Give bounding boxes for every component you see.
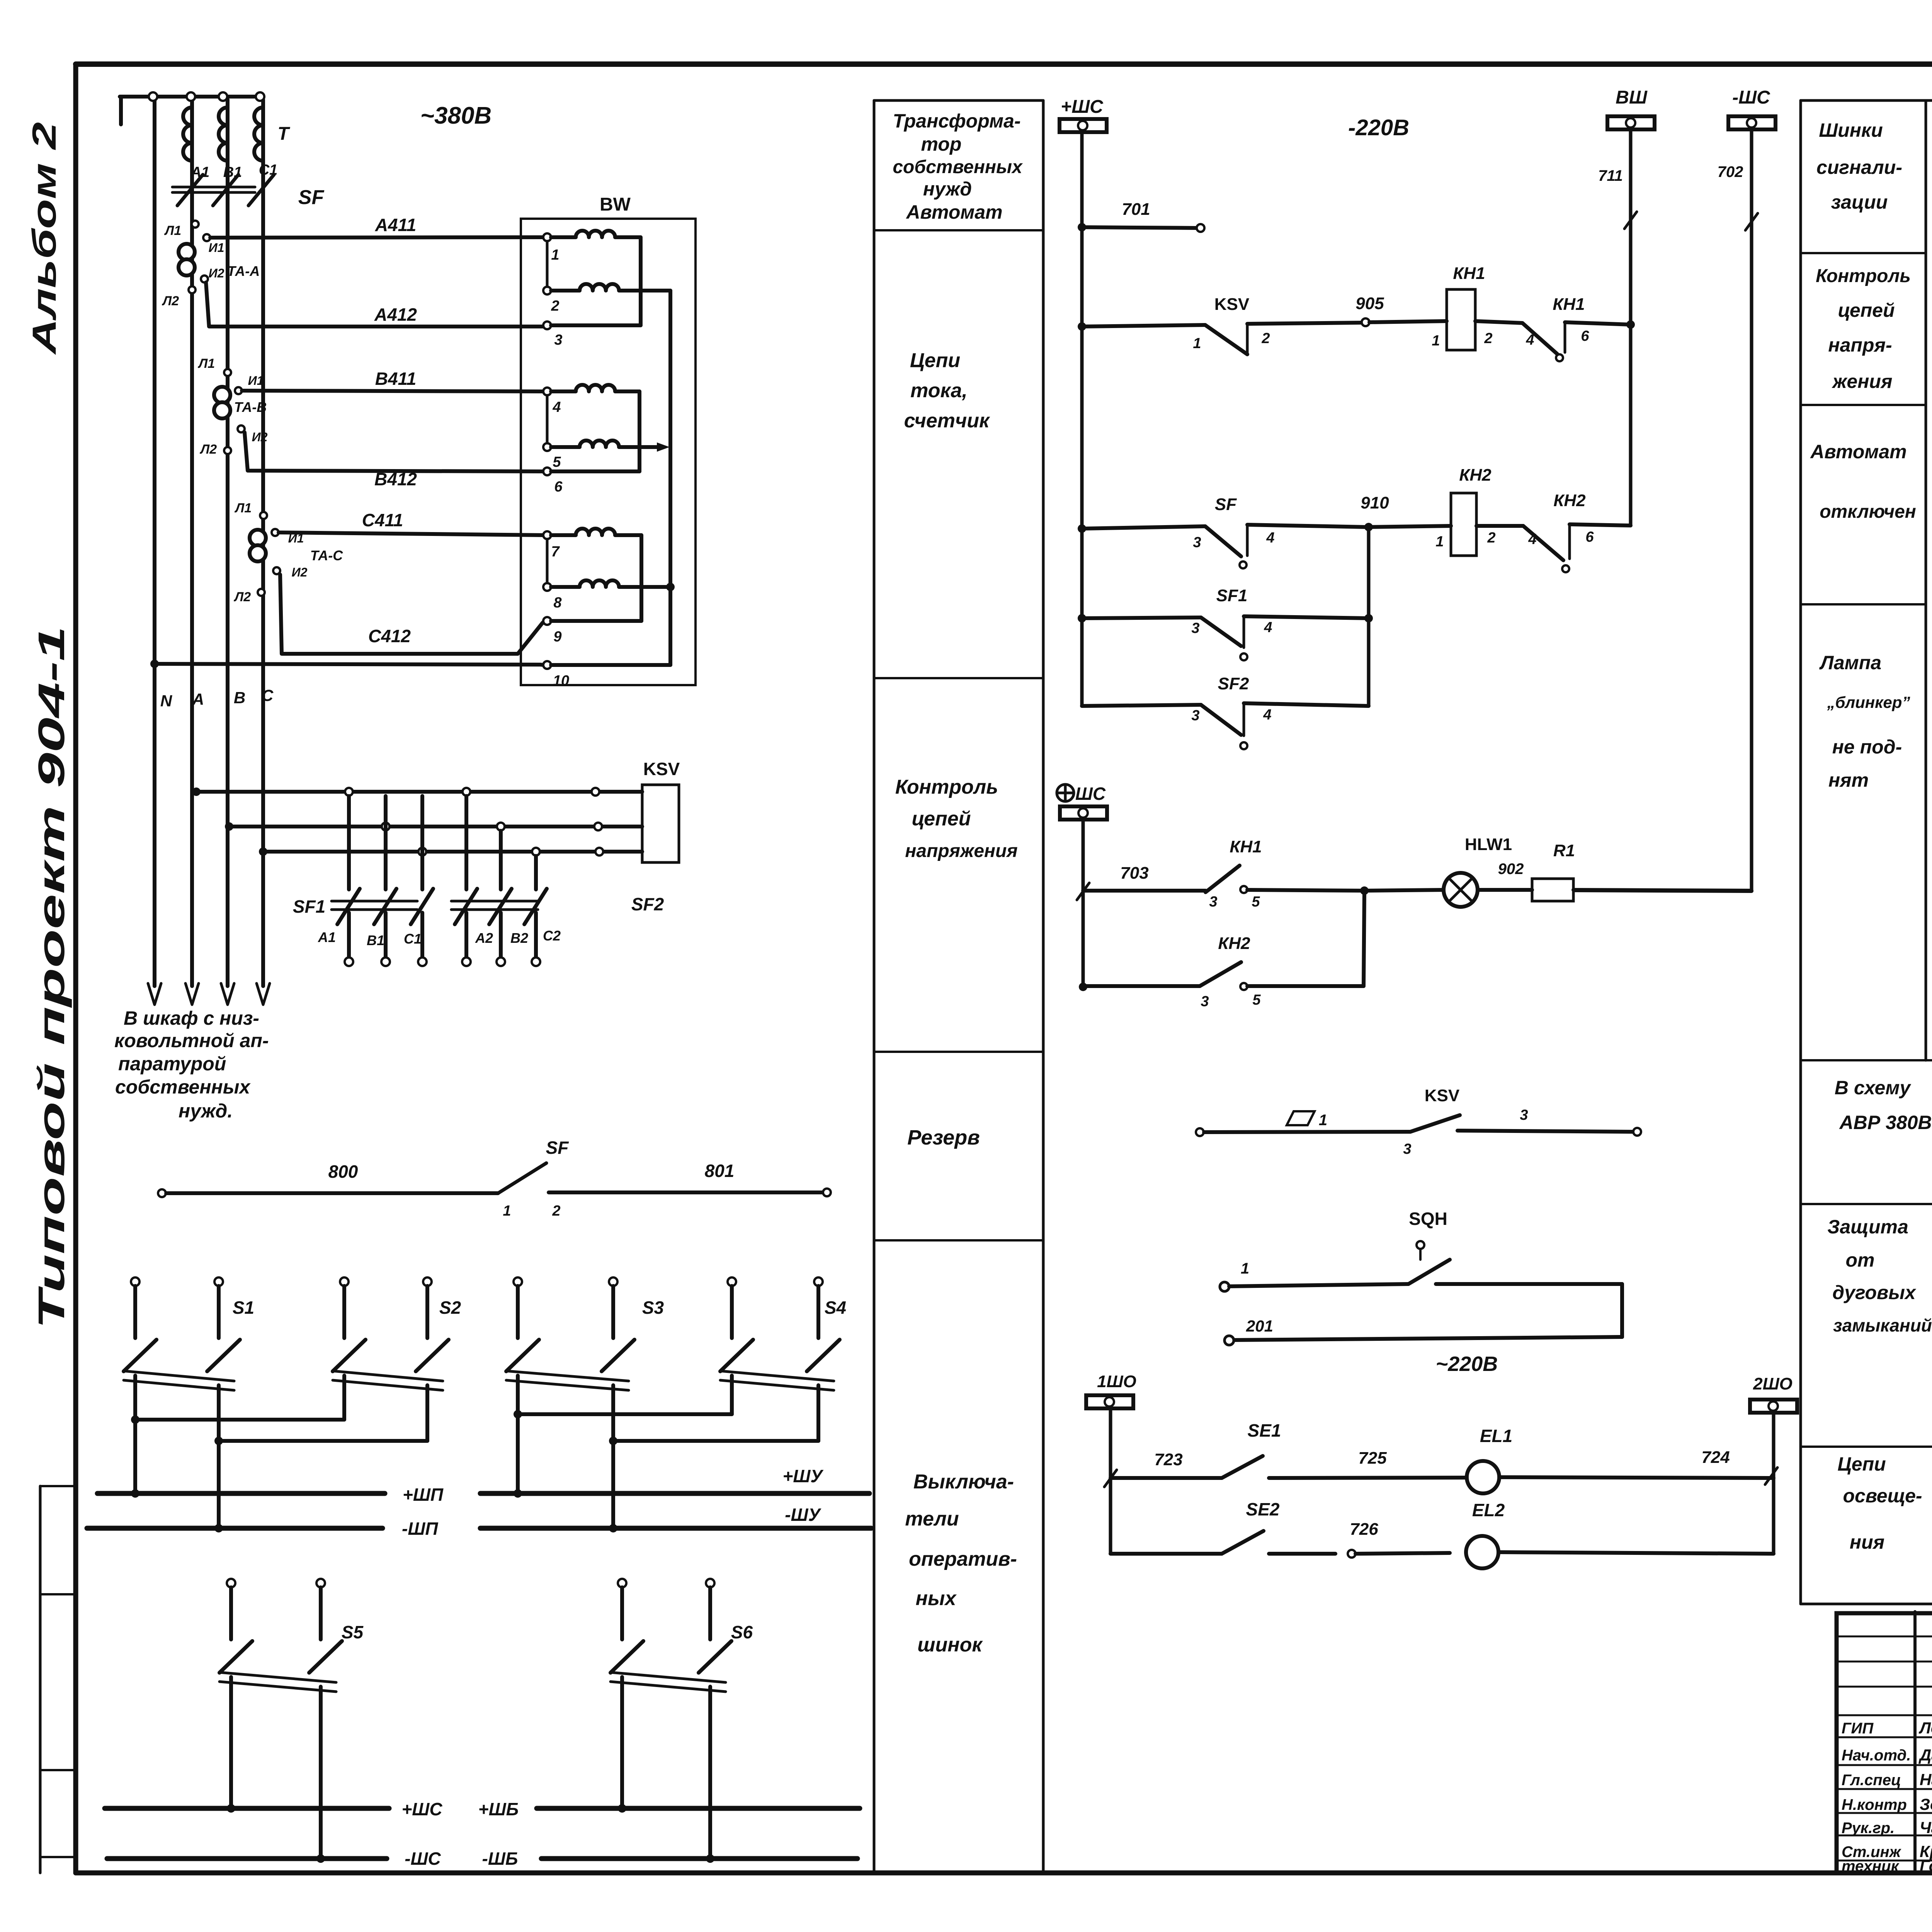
wire B411 <box>242 391 543 391</box>
svg-text:А2: А2 <box>475 930 493 946</box>
svg-text:нужд.: нужд. <box>179 1100 233 1122</box>
svg-text:9: 9 <box>553 629 561 645</box>
svg-text:Цепи: Цепи <box>1837 1453 1886 1475</box>
svg-text:8: 8 <box>553 595 562 611</box>
switch S4 <box>728 1277 736 1286</box>
contact SF1 row <box>1078 614 1086 622</box>
svg-text:нужд: нужд <box>923 178 972 200</box>
svg-text:Рук.гр.: Рук.гр. <box>1842 1820 1895 1837</box>
svg-text:EL2: EL2 <box>1472 1500 1505 1520</box>
svg-text:С1: С1 <box>404 931 422 947</box>
svg-text:КН1: КН1 <box>1553 295 1585 314</box>
svg-text:1: 1 <box>1435 534 1444 550</box>
switch S1 <box>131 1277 139 1286</box>
svg-text:паратурой: паратурой <box>118 1053 226 1075</box>
bus -ШС <box>107 1856 387 1861</box>
svg-text:1: 1 <box>503 1203 511 1219</box>
svg-text:724: 724 <box>1701 1448 1730 1467</box>
svg-text:3: 3 <box>1403 1141 1411 1157</box>
svg-text:S4: S4 <box>825 1298 846 1318</box>
bus -ШУ <box>480 1526 871 1531</box>
svg-text:6: 6 <box>554 479 563 495</box>
svg-text:EL1: EL1 <box>1480 1426 1512 1446</box>
svg-text:-ШП: -ШП <box>402 1519 438 1539</box>
bus +ШУ <box>480 1491 869 1496</box>
svg-text:цепей: цепей <box>1838 299 1895 321</box>
svg-text:Л1: Л1 <box>234 501 252 515</box>
contact KH1 row 703 <box>1077 883 1089 900</box>
svg-text:-ШУ: -ШУ <box>785 1505 821 1525</box>
contact KSV reserve row <box>1196 1128 1204 1136</box>
contact KH2 row <box>1079 983 1087 991</box>
contact SE2 row <box>1111 1552 1222 1556</box>
contact KH1 <box>1522 323 1557 354</box>
svg-text:КН2: КН2 <box>1459 466 1492 485</box>
breaker SF1 (3-pole) <box>347 796 351 889</box>
svg-text:SF1: SF1 <box>1216 586 1248 605</box>
svg-text:4: 4 <box>1264 619 1272 636</box>
svg-text:напря-: напря- <box>1828 334 1892 356</box>
BW common return wire <box>668 291 672 665</box>
svg-text:1ШО: 1ШО <box>1097 1372 1136 1391</box>
svg-text:тор: тор <box>921 133 962 155</box>
svg-text:Л1: Л1 <box>197 356 215 371</box>
svg-text:замыканий: замыканий <box>1833 1315 1932 1335</box>
svg-text:В1: В1 <box>367 932 384 948</box>
svg-text:Лампа: Лампа <box>1819 652 1881 673</box>
svg-text:910: 910 <box>1361 493 1389 512</box>
svg-text:дуговых: дуговых <box>1832 1282 1917 1303</box>
svg-text:S1: S1 <box>233 1298 254 1318</box>
svg-text:S5: S5 <box>342 1622 364 1642</box>
svg-text:ных: ных <box>916 1587 957 1610</box>
svg-text:Альбом 2: Альбом 2 <box>26 122 63 355</box>
svg-text:+ШБ: +ШБ <box>478 1799 519 1819</box>
svg-text:КН2: КН2 <box>1218 934 1250 953</box>
svg-text:1: 1 <box>1241 1260 1249 1277</box>
svg-text:жения: жения <box>1832 371 1893 392</box>
wire A412 <box>206 282 543 327</box>
svg-text:С2: С2 <box>543 928 561 944</box>
wire -ШС dropper <box>1750 130 1753 891</box>
right label column box <box>1799 100 1802 1604</box>
lamp EL1 <box>1467 1461 1499 1493</box>
svg-text:726: 726 <box>1350 1520 1378 1539</box>
wire C411 <box>279 532 545 535</box>
svg-text:АВР 380В: АВР 380В <box>1839 1112 1932 1133</box>
svg-text:-ШС: -ШС <box>1732 87 1770 108</box>
svg-text:ГИП: ГИП <box>1842 1720 1874 1737</box>
svg-text:201: 201 <box>1246 1317 1273 1335</box>
svg-text:725: 725 <box>1358 1449 1387 1468</box>
relay coil KH1 <box>1447 289 1475 350</box>
current transformer TA-A <box>179 244 195 260</box>
svg-text:6: 6 <box>1581 328 1589 344</box>
wire B vertical <box>226 100 230 986</box>
wire 1ШО dropper <box>1109 1408 1112 1554</box>
svg-text:И2: И2 <box>209 266 224 280</box>
wire 910 <box>1247 525 1366 527</box>
breaker SF2 (3-pole) <box>464 796 468 889</box>
svg-text:техник: техник <box>1842 1858 1900 1875</box>
svg-text:А: А <box>192 690 204 708</box>
svg-text:Н.контр: Н.контр <box>1842 1796 1907 1813</box>
svg-text:-ШБ: -ШБ <box>482 1849 518 1869</box>
svg-text:Цепи: Цепи <box>910 349 960 372</box>
svg-text:Л2: Л2 <box>199 442 217 457</box>
BW terminals 1-10 <box>543 233 551 241</box>
svg-text:BW: BW <box>600 194 631 215</box>
BW coil phase B <box>546 395 549 443</box>
transformer T secondary coils <box>183 107 192 161</box>
svg-text:Контроль: Контроль <box>1816 266 1911 286</box>
svg-text:S6: S6 <box>731 1622 753 1642</box>
svg-text:SF2: SF2 <box>631 894 664 914</box>
svg-text:КН1: КН1 <box>1453 264 1485 283</box>
wire KH2 to ВШ dropper <box>1570 524 1631 526</box>
svg-text:2: 2 <box>552 1203 560 1219</box>
svg-text:Л1: Л1 <box>164 223 181 238</box>
wire N vertical <box>153 100 156 986</box>
svg-text:S2: S2 <box>439 1298 461 1318</box>
contact SF2 row <box>1082 705 1201 706</box>
svg-text:3: 3 <box>1201 993 1209 1010</box>
switch S6 <box>618 1579 626 1587</box>
svg-text:ковольтной ап-: ковольтной ап- <box>114 1030 269 1051</box>
wire 701 <box>1078 223 1086 231</box>
svg-text:SF: SF <box>298 186 325 209</box>
lamp EL2 <box>1466 1536 1498 1568</box>
wire tap C to KSV <box>259 847 267 856</box>
svg-text:-ШС: -ШС <box>405 1849 441 1869</box>
svg-text:4: 4 <box>552 399 561 415</box>
wire S1-S2 link top <box>135 1418 344 1422</box>
bus +ШБ <box>537 1806 860 1811</box>
svg-text:Контроль: Контроль <box>895 776 998 798</box>
svg-text:КН1: КН1 <box>1230 837 1262 856</box>
svg-text:~380В: ~380В <box>420 102 492 129</box>
svg-text:В1: В1 <box>223 164 242 180</box>
svg-text:Трансформа-: Трансформа- <box>893 110 1020 132</box>
svg-text:2: 2 <box>551 298 559 314</box>
svg-text:Л2: Л2 <box>233 590 251 604</box>
svg-text:SF: SF <box>1215 495 1237 514</box>
svg-text:1: 1 <box>1319 1112 1327 1129</box>
wire 800 <box>158 1189 166 1197</box>
wire N to meter <box>150 660 159 668</box>
wire to ВШ <box>1565 322 1631 325</box>
svg-text:~220В: ~220В <box>1436 1352 1498 1376</box>
wire 801 <box>549 1190 823 1194</box>
svg-text:+ШУ: +ШУ <box>782 1466 824 1486</box>
resistor R1 <box>1478 888 1532 892</box>
svg-text:А1: А1 <box>318 929 336 945</box>
svg-text:Золотарева: Золотарева <box>1920 1795 1932 1813</box>
bus -ШП <box>87 1526 383 1531</box>
svg-text:ТА-С: ТА-С <box>310 548 344 563</box>
svg-text:10: 10 <box>553 673 569 689</box>
svg-text:SF2: SF2 <box>1218 674 1249 693</box>
svg-text:2ШО: 2ШО <box>1753 1374 1793 1393</box>
svg-text:+ШС: +ШС <box>1061 97 1104 117</box>
wire S3-S4 link top <box>518 1412 732 1416</box>
bus connection circles <box>149 92 157 101</box>
svg-text:6: 6 <box>1585 529 1594 545</box>
circuit breaker SF (3-pole) <box>172 186 255 189</box>
svg-text:KSV: KSV <box>1214 295 1250 314</box>
svg-text:оператив-: оператив- <box>909 1548 1017 1570</box>
svg-text:702: 702 <box>1718 163 1743 180</box>
svg-text:4: 4 <box>1263 707 1271 723</box>
svg-text:освеще-: освеще- <box>1843 1485 1922 1507</box>
svg-text:1: 1 <box>551 247 559 263</box>
svg-text:723: 723 <box>1154 1450 1182 1469</box>
svg-text:от: от <box>1846 1249 1875 1271</box>
label column box <box>873 100 876 1873</box>
svg-text:KSV: KSV <box>643 759 680 779</box>
wire A vertical <box>190 100 194 986</box>
BW coil phase C <box>546 539 549 583</box>
arrowheads N A B C <box>148 983 161 1005</box>
svg-text:отключен: отключен <box>1820 502 1916 522</box>
svg-text:В2: В2 <box>510 930 528 946</box>
svg-text:5: 5 <box>553 454 561 470</box>
svg-text:нят: нят <box>1828 769 1869 791</box>
svg-text:902: 902 <box>1498 861 1524 878</box>
svg-text:Резерв: Резерв <box>907 1126 980 1149</box>
svg-text:N: N <box>160 692 173 710</box>
svg-text:905: 905 <box>1355 294 1384 313</box>
svg-text:Выключа-: Выключа- <box>913 1471 1014 1493</box>
wire ⊕ШС dropper <box>1082 820 1085 987</box>
bus +ШП <box>97 1491 385 1496</box>
svg-text:С: С <box>262 686 274 704</box>
svg-text:В: В <box>234 689 245 707</box>
svg-text:HLW1: HLW1 <box>1465 835 1512 854</box>
node: incoming 380V bus <box>120 95 261 99</box>
svg-text:В шкаф с низ-: В шкаф с низ- <box>124 1007 259 1029</box>
wire A411 <box>210 237 543 238</box>
svg-text:4: 4 <box>1528 531 1536 548</box>
svg-text:801: 801 <box>705 1161 735 1181</box>
svg-text:шинок: шинок <box>917 1634 983 1656</box>
svg-text:тока,: тока, <box>910 379 968 402</box>
svg-text:ТА-В: ТА-В <box>234 399 267 415</box>
svg-text:3: 3 <box>554 332 562 348</box>
svg-text:5: 5 <box>1252 992 1261 1008</box>
svg-text:R1: R1 <box>1553 841 1575 860</box>
svg-text:напряжения: напряжения <box>905 841 1017 861</box>
current transformer TA-C <box>250 530 266 546</box>
border frame <box>76 61 1932 67</box>
svg-text:В схему: В схему <box>1835 1077 1912 1099</box>
svg-text:Гл.спец: Гл.спец <box>1842 1772 1901 1789</box>
svg-text:тели: тели <box>905 1508 959 1530</box>
svg-text:SF: SF <box>546 1138 570 1158</box>
left margin attachment boxes <box>39 1486 42 1873</box>
svg-text:1: 1 <box>1193 335 1201 352</box>
svg-text:800: 800 <box>328 1162 358 1182</box>
BW coil phase A <box>546 241 549 287</box>
svg-text:собственных: собственных <box>115 1076 251 1098</box>
svg-text:5: 5 <box>1252 894 1260 910</box>
BW terminal 10 wire <box>551 663 670 667</box>
contact SF row B <box>1078 524 1086 533</box>
wire +ШС dropper <box>1080 132 1084 706</box>
svg-text:ШС: ШС <box>1075 784 1106 804</box>
bus -ШБ <box>541 1856 857 1861</box>
svg-text:Чапны: Чапны <box>1920 1818 1932 1837</box>
svg-text:SQH: SQH <box>1409 1209 1447 1229</box>
svg-text:2: 2 <box>1487 530 1495 546</box>
svg-text:Нач.отд.: Нач.отд. <box>1842 1747 1911 1764</box>
svg-text:-220В: -220В <box>1348 115 1409 140</box>
svg-text:3: 3 <box>1191 620 1199 636</box>
svg-text:T: T <box>277 124 290 144</box>
svg-text:С411: С411 <box>362 510 403 530</box>
wire C vertical <box>261 100 265 986</box>
wire ВШ dropper <box>1629 130 1633 526</box>
svg-text:711: 711 <box>1598 167 1623 184</box>
wire 2ШО dropper <box>1772 1413 1776 1554</box>
svg-text:И1: И1 <box>209 241 224 255</box>
wire S1-S2 link bottom <box>219 1439 427 1443</box>
contact KH2 <box>1523 526 1563 560</box>
wire B412 <box>245 432 543 471</box>
svg-text:И2: И2 <box>252 430 268 444</box>
wire tap B to KSV <box>225 822 233 831</box>
svg-text:3: 3 <box>1191 707 1199 724</box>
svg-text:ТА-А: ТА-А <box>227 263 260 279</box>
wire 910 dropper <box>1367 527 1371 706</box>
contact SE1 row <box>1104 1470 1117 1487</box>
switch S2 <box>340 1277 349 1286</box>
title block outer box <box>1837 1613 1932 1873</box>
current transformer TA-B <box>214 387 230 403</box>
svg-text:+ШС: +ШС <box>401 1799 442 1819</box>
svg-text:3: 3 <box>1193 534 1201 551</box>
svg-text:4: 4 <box>1266 530 1274 546</box>
svg-text:3: 3 <box>1209 894 1217 910</box>
svg-text:зации: зации <box>1831 191 1888 213</box>
wire C412 <box>280 575 544 654</box>
switch S5 <box>227 1579 235 1587</box>
svg-text:Автомат: Автомат <box>1810 441 1906 463</box>
svg-text:Шинки: Шинки <box>1819 119 1883 141</box>
svg-text:701: 701 <box>1122 200 1150 219</box>
switch S3 <box>514 1277 522 1286</box>
svg-text:не под-: не под- <box>1832 736 1902 758</box>
svg-text:„блинкер”: „блинкер” <box>1827 693 1910 711</box>
svg-text:А412: А412 <box>374 304 417 325</box>
svg-text:ВШ: ВШ <box>1616 87 1648 108</box>
wire S3-S4 link bottom <box>613 1439 818 1443</box>
svg-text:Давыдов: Давыдов <box>1918 1746 1932 1764</box>
svg-text:SF1: SF1 <box>293 896 325 917</box>
svg-text:КН2: КН2 <box>1553 491 1586 510</box>
svg-text:Л2: Л2 <box>162 294 179 308</box>
svg-text:В412: В412 <box>374 469 417 489</box>
svg-text:С412: С412 <box>368 626 411 646</box>
svg-text:+ШП: +ШП <box>403 1485 444 1505</box>
svg-text:И1: И1 <box>248 374 264 388</box>
switch SF contact <box>498 1163 546 1193</box>
svg-text:Горотка: Горотка <box>1920 1857 1932 1875</box>
wire tap A to KSV <box>192 787 201 796</box>
svg-text:1: 1 <box>1432 333 1440 349</box>
svg-text:SE1: SE1 <box>1248 1420 1281 1440</box>
svg-text:сигнали-: сигнали- <box>1816 156 1902 178</box>
svg-text:Автомат: Автомат <box>905 201 1002 223</box>
bus +ШС <box>105 1806 389 1811</box>
svg-text:703: 703 <box>1120 864 1148 883</box>
svg-text:7: 7 <box>551 544 560 560</box>
svg-text:В411: В411 <box>375 369 417 389</box>
svg-text:Защита: Защита <box>1827 1216 1908 1238</box>
svg-text:И2: И2 <box>292 565 308 579</box>
bus ⊕ШС <box>1057 784 1074 801</box>
relay coil KH2 <box>1451 493 1476 556</box>
svg-text:Типовой проект 904-1: Типовой проект 904-1 <box>31 626 72 1329</box>
svg-text:KSV: KSV <box>1425 1086 1460 1105</box>
svg-text:3: 3 <box>1520 1107 1528 1123</box>
lamp HLW1 <box>1364 890 1444 891</box>
svg-text:2: 2 <box>1484 330 1492 347</box>
svg-text:S3: S3 <box>642 1298 664 1318</box>
svg-text:А411: А411 <box>375 215 417 235</box>
svg-text:4: 4 <box>1526 332 1534 348</box>
svg-text:собственных: собственных <box>893 157 1023 177</box>
svg-text:SE2: SE2 <box>1246 1499 1280 1519</box>
contact KSV row A <box>1078 322 1086 331</box>
svg-text:Леонов: Леонов <box>1918 1719 1932 1737</box>
wire 905 <box>1247 323 1362 324</box>
svg-text:2: 2 <box>1261 330 1270 347</box>
svg-text:Нашельский: Нашельский <box>1920 1770 1932 1789</box>
svg-text:счетчик: счетчик <box>904 410 990 432</box>
svg-text:цепей: цепей <box>912 808 971 830</box>
svg-text:ния: ния <box>1850 1531 1884 1553</box>
title block signature table <box>1913 1612 1917 1873</box>
